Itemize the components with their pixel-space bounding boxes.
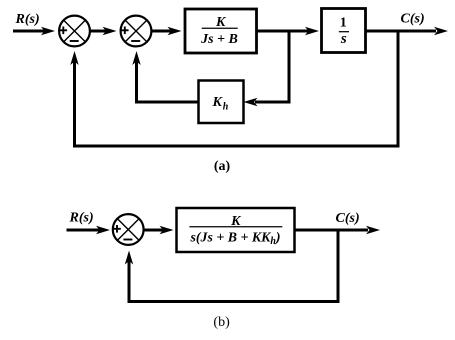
- svg-text:h: h: [223, 101, 229, 112]
- svg-text:Js + B: Js + B: [200, 32, 238, 47]
- svg-text:R(s): R(s): [69, 211, 94, 226]
- svg-text:1: 1: [340, 16, 347, 31]
- svg-text:(b): (b): [213, 315, 230, 330]
- svg-text:C(s): C(s): [401, 12, 425, 27]
- svg-text:C(s): C(s): [336, 211, 360, 226]
- svg-text:s: s: [340, 31, 347, 47]
- svg-text:s(Js + B + KKh): s(Js + B + KKh): [190, 230, 281, 247]
- svg-text:K: K: [212, 95, 224, 110]
- svg-text:(a): (a): [214, 159, 231, 174]
- svg-text:R(s): R(s): [15, 12, 40, 27]
